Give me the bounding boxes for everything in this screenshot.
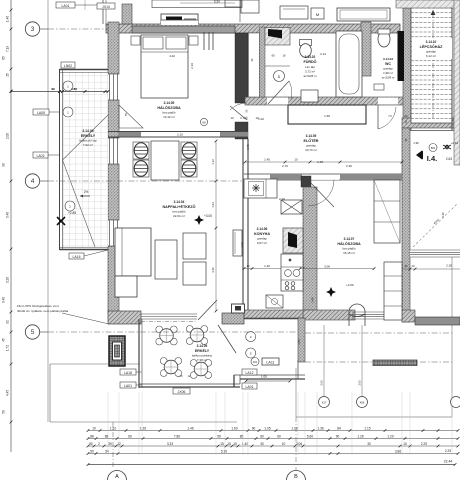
svg-text:90: 90 (271, 54, 275, 58)
svg-text:4.42: 4.42 (169, 54, 175, 58)
svg-text:10: 10 (230, 116, 234, 120)
svg-text:+2.85: +2.85 (68, 211, 76, 215)
svg-text:1.13: 1.13 (240, 242, 244, 248)
svg-text:2.00: 2.00 (6, 133, 10, 139)
svg-text:2.29: 2.29 (445, 449, 451, 453)
svg-text:3.14.05: 3.14.05 (164, 101, 175, 105)
svg-text:65: 65 (2, 56, 6, 60)
svg-text:4.46: 4.46 (211, 267, 215, 273)
svg-text:+3.00: +3.00 (346, 283, 354, 287)
svg-text:2.05: 2.05 (320, 380, 324, 386)
svg-text:60: 60 (128, 434, 132, 438)
svg-text:1.96: 1.96 (413, 141, 419, 145)
svg-text:7,92 m²: 7,92 m² (83, 143, 93, 147)
svg-text:3.40: 3.40 (2, 297, 6, 303)
svg-text:2.70: 2.70 (282, 164, 288, 168)
svg-text:90: 90 (89, 442, 93, 446)
svg-text:1.20: 1.20 (387, 434, 393, 438)
svg-text:5.10: 5.10 (221, 449, 227, 453)
svg-text:1.52: 1.52 (110, 426, 116, 430)
svg-text:HÁLÓSZOBA: HÁLÓSZOBA (337, 241, 361, 246)
svg-text:1.13: 1.13 (211, 159, 215, 165)
svg-text:+2.63: +2.63 (451, 141, 459, 145)
svg-text:13,42 m²: 13,42 m² (163, 115, 175, 119)
svg-text:3.14.06: 3.14.06 (257, 227, 268, 231)
svg-text:22,04 m²: 22,04 m² (173, 214, 185, 218)
svg-text:15: 15 (220, 442, 224, 446)
svg-text:1.79: 1.79 (246, 144, 250, 150)
svg-text:90: 90 (2, 163, 6, 167)
svg-text:1.46: 1.46 (187, 426, 193, 430)
svg-text:2.05: 2.05 (358, 380, 362, 386)
svg-text:1.26: 1.26 (140, 426, 146, 430)
svg-text:greslap: greslap (426, 50, 436, 54)
svg-text:1,98 m²: 1,98 m² (383, 71, 393, 75)
svg-text:2.26: 2.26 (346, 164, 352, 168)
svg-text:5.60: 5.60 (307, 434, 313, 438)
svg-text:ELŐTÉR: ELŐTÉR (304, 138, 319, 143)
svg-text:1.40: 1.40 (264, 264, 270, 268)
svg-text:B: B (294, 474, 298, 480)
svg-text:88: 88 (90, 434, 94, 438)
svg-text:2: 2 (98, 442, 100, 446)
svg-text:balkon párkány: balkon párkány (192, 354, 213, 358)
svg-text:60: 60 (260, 434, 264, 438)
svg-text:4: 4 (31, 178, 35, 185)
svg-text:7.19: 7.19 (6, 46, 10, 52)
svg-text:1.10: 1.10 (291, 426, 297, 430)
svg-text:LÉPCSŐHÁZ: LÉPCSŐHÁZ (420, 44, 443, 49)
svg-text:3.14.02: 3.14.02 (305, 55, 316, 59)
svg-text:greslap: greslap (257, 237, 267, 241)
svg-text:3.06: 3.06 (296, 442, 302, 446)
svg-text:greslap: greslap (306, 144, 316, 148)
svg-text:50: 50 (2, 410, 6, 414)
svg-text:3.33: 3.33 (167, 442, 173, 446)
svg-text:LA05: LA05 (37, 111, 45, 115)
svg-text:2.28: 2.28 (446, 264, 452, 268)
svg-text:lam.padló: lam.padló (172, 210, 185, 214)
svg-text:1.45: 1.45 (264, 158, 270, 162)
svg-text:LA01: LA01 (246, 385, 254, 389)
svg-text:LA01: LA01 (62, 4, 70, 8)
svg-text:10: 10 (92, 426, 96, 430)
svg-text:1.05: 1.05 (264, 426, 270, 430)
svg-text:LA01: LA01 (124, 384, 132, 388)
svg-text:16: 16 (282, 54, 286, 58)
svg-text:45: 45 (2, 338, 6, 342)
svg-text:1.15: 1.15 (364, 426, 370, 430)
svg-text:LA02: LA02 (37, 154, 45, 158)
svg-text:30: 30 (367, 442, 371, 446)
svg-text:1.26: 1.26 (357, 434, 363, 438)
svg-text:3.06: 3.06 (324, 265, 330, 269)
svg-text:3.86: 3.86 (395, 449, 401, 453)
svg-text:16,15 m²: 16,15 m² (343, 251, 355, 255)
svg-text:39: 39 (108, 442, 112, 446)
svg-text:JX14: JX14 (102, 5, 110, 9)
svg-text:1.36: 1.36 (317, 426, 323, 430)
svg-text:2.13: 2.13 (320, 52, 326, 56)
svg-text:10,74 m²: 10,74 m² (305, 148, 317, 152)
svg-text:92: 92 (6, 320, 10, 324)
svg-text:1.40: 1.40 (6, 16, 10, 22)
svg-text:6,12 m²: 6,12 m² (426, 54, 436, 58)
svg-text:7,38 m²: 7,38 m² (197, 358, 207, 362)
svg-text:lam.padló: lam.padló (342, 247, 355, 251)
svg-text:5.50: 5.50 (214, 0, 220, 4)
svg-text:I.4.: I.4. (427, 154, 437, 163)
svg-text:10: 10 (412, 264, 415, 268)
svg-text:5: 5 (31, 329, 35, 336)
svg-text:A: A (115, 474, 119, 480)
svg-text:M2: M2 (202, 121, 206, 125)
svg-text:54: 54 (105, 449, 109, 453)
svg-text:M: M (316, 12, 319, 17)
svg-text:HÁLÓSZOBA: HÁLÓSZOBA (157, 105, 181, 110)
svg-text:K06: K06 (360, 401, 365, 405)
svg-text:JX06: JX06 (178, 390, 186, 394)
svg-text:K17: K17 (322, 401, 327, 405)
svg-text:90: 90 (336, 434, 340, 438)
svg-text:sz.52/8 m: sz.52/8 m (382, 76, 395, 80)
svg-text:1.80: 1.80 (71, 87, 77, 91)
svg-text:ERKÉLY: ERKÉLY (81, 133, 96, 138)
svg-text:LN02: LN02 (64, 64, 72, 68)
svg-text:15: 15 (6, 73, 10, 77)
svg-text:2%: 2% (84, 190, 89, 194)
svg-text:59: 59 (217, 434, 221, 438)
svg-text:1.50: 1.50 (297, 339, 301, 345)
svg-text:60: 60 (277, 434, 281, 438)
svg-text:2.63: 2.63 (446, 157, 452, 161)
svg-text:1.48: 1.48 (317, 160, 323, 164)
svg-text:3.14.09: 3.14.09 (197, 344, 208, 348)
svg-text:KONYHA: KONYHA (254, 232, 270, 236)
svg-text:2.49: 2.49 (311, 297, 315, 303)
svg-text:90: 90 (252, 426, 256, 430)
svg-text:K01: K01 (253, 361, 258, 364)
svg-text:LA11: LA11 (266, 360, 274, 364)
svg-text:NAPPALI+ÉTKEZŐ: NAPPALI+ÉTKEZŐ (162, 204, 195, 209)
svg-text:FÜRDŐ: FÜRDŐ (303, 59, 316, 64)
svg-text:av.52/8 m: av.52/8 m (304, 74, 317, 78)
svg-text:22.44: 22.44 (444, 460, 453, 464)
svg-text:50: 50 (90, 449, 94, 453)
svg-text:3.14.10: 3.14.10 (426, 40, 437, 44)
svg-text:+3.00: +3.00 (204, 214, 212, 218)
svg-text:2.29: 2.29 (421, 442, 427, 446)
svg-text:WC: WC (385, 62, 391, 66)
svg-text:2.19: 2.19 (190, 63, 194, 69)
svg-text:3.14.07: 3.14.07 (344, 237, 355, 241)
svg-text:90: 90 (51, 87, 55, 91)
svg-text:3.20: 3.20 (6, 277, 10, 283)
svg-text:3.40: 3.40 (441, 212, 445, 218)
svg-text:1.64: 1.64 (211, 202, 215, 208)
svg-text:3.14.03: 3.14.03 (82, 129, 93, 133)
svg-text:15: 15 (227, 442, 231, 446)
svg-text:2.10: 2.10 (177, 133, 183, 137)
svg-text:3.40: 3.40 (6, 212, 10, 218)
svg-text:15: 15 (233, 442, 237, 446)
svg-text:7.80: 7.80 (174, 434, 180, 438)
svg-text:30: 30 (260, 442, 264, 446)
svg-text:1.02: 1.02 (258, 117, 264, 121)
svg-text:4.45: 4.45 (6, 390, 10, 396)
svg-text:10: 10 (282, 442, 286, 446)
svg-text:3,72 m²: 3,72 m² (305, 70, 315, 74)
svg-text:greslap: greslap (383, 67, 393, 71)
svg-text:3.14.03: 3.14.03 (383, 57, 393, 61)
svg-text:3: 3 (31, 26, 35, 33)
svg-text:1.60: 1.60 (261, 375, 267, 379)
svg-text:B01: B01 (431, 147, 436, 150)
svg-text:7.0: 7.0 (388, 114, 392, 118)
svg-text:84: 84 (337, 426, 341, 430)
svg-text:ERKÉLY: ERKÉLY (195, 348, 210, 353)
svg-text:Lim.láp: Lim.láp (305, 65, 315, 69)
svg-text:10: 10 (294, 158, 298, 162)
svg-text:lam.padló: lam.padló (162, 111, 175, 115)
svg-text:1.60: 1.60 (231, 426, 237, 430)
svg-text:10: 10 (403, 442, 407, 446)
svg-text:15cm XPS hőszigetelésen vont: 15cm XPS hőszigetelésen vont (17, 304, 59, 308)
svg-text:LA16: LA16 (73, 255, 81, 259)
svg-text:1.72: 1.72 (6, 345, 10, 351)
svg-text:30: 30 (405, 264, 408, 268)
svg-text:3.14.04: 3.14.04 (174, 200, 185, 204)
svg-text:LA12: LA12 (246, 371, 254, 375)
svg-text:1.65: 1.65 (324, 114, 330, 118)
svg-text:LA18: LA18 (124, 371, 132, 375)
svg-text:3.14.05: 3.14.05 (306, 134, 317, 138)
svg-text:9,67 m²: 9,67 m² (257, 241, 267, 245)
svg-text:2.26: 2.26 (279, 197, 285, 201)
svg-text:10: 10 (247, 264, 250, 268)
svg-text:40x40 cm nyílások, nem párkány: 40x40 cm nyílások, nem párkányzatba (17, 309, 69, 313)
